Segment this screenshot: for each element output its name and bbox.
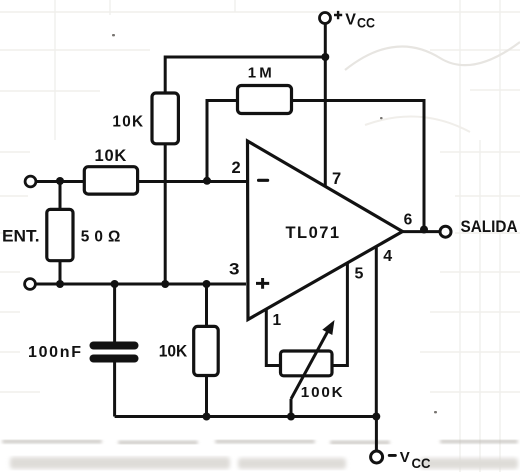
minus input symbol [257, 179, 269, 182]
resistor R2 1M (feedback) [238, 64, 292, 113]
svg-text:1: 1 [273, 312, 282, 329]
wire 1M right terminal to output node [293, 101, 424, 230]
terminal input lower ENT [25, 279, 36, 290]
wire 1M left terminal to pin2 net [207, 101, 236, 182]
wire pin 4 down [375, 247, 378, 417]
plus input symbol [256, 278, 269, 289]
wire R1 bottom to pin3 net [164, 144, 167, 284]
svg-text:V: V [400, 449, 410, 466]
svg-text:50Ω: 50Ω [81, 229, 121, 246]
wire output pin 6 [402, 230, 441, 233]
terminal output SALIDA [440, 217, 518, 237]
resistor R4 10K (lower vertical) [159, 326, 219, 375]
junction R1 bottom on pin3 net [161, 280, 169, 288]
junction 1M left on pin2 net [203, 177, 211, 185]
wire -Vcc drop [375, 417, 378, 452]
svg-text:1M: 1M [248, 64, 272, 81]
wire bottom rail [115, 415, 377, 418]
wire 50ohm bottom [59, 261, 62, 285]
wire pin2 input net [36, 180, 246, 183]
potentiometer P1 100K (offset null) [281, 320, 343, 401]
svg-text:SALIDA: SALIDA [461, 217, 518, 236]
wire R4 top [205, 284, 208, 327]
wire pin3 input net [36, 283, 247, 286]
svg-text:2: 2 [232, 159, 241, 177]
resistor R5 50 ohm (input termination) [47, 209, 121, 260]
svg-text:5: 5 [355, 265, 364, 282]
svg-text:10K: 10K [159, 343, 188, 361]
svg-text:100K: 100K [301, 384, 343, 401]
svg-text:100nF: 100nF [28, 344, 81, 361]
terminal input upper ENT [25, 176, 36, 187]
terminal +Vcc [320, 11, 376, 31]
resistor R3 10K (series input) [84, 147, 137, 194]
wire top rail from +Vcc node to R1 [165, 57, 325, 93]
junction pin4/-Vcc on rail [372, 413, 380, 421]
wire R4 bottom [205, 376, 208, 417]
junction 50ohm bottom on pin3 net [56, 280, 64, 288]
svg-text:CC: CC [412, 455, 431, 471]
svg-text:7: 7 [332, 170, 341, 188]
svg-text:6: 6 [404, 212, 413, 229]
junction cap top on pin3 net [111, 280, 119, 288]
junction wiper on rail [287, 413, 295, 421]
wire +Vcc vertical to pin 7 [324, 24, 327, 189]
svg-text:10K: 10K [95, 147, 127, 165]
capacitor C1 100nF [28, 342, 139, 363]
junction R4 bottom on rail [203, 413, 211, 421]
junction +Vcc/pin7/rail [321, 53, 329, 61]
svg-text:V: V [345, 12, 356, 29]
svg-text:ENT.: ENT. [2, 227, 40, 246]
svg-text:3: 3 [229, 260, 240, 279]
wire pin 5 to pot right [332, 263, 348, 366]
wire pin 1 to pot left [266, 309, 281, 366]
wire cap bottom [113, 363, 116, 417]
wire cap top [113, 284, 116, 342]
svg-text:10K: 10K [112, 114, 143, 131]
svg-text:4: 4 [383, 248, 392, 265]
junction 50ohm top on pin2 net [56, 177, 64, 185]
junction feedback on output [420, 226, 428, 234]
junction R4 top on pin3 net [203, 280, 211, 288]
op-amp U1 TL071 [248, 141, 403, 320]
terminal -Vcc [371, 449, 431, 471]
wire pot wiper stub [290, 399, 293, 417]
svg-text:CC: CC [357, 15, 375, 31]
wire 50ohm top [59, 182, 62, 211]
resistor R1 10K (upper vertical) [112, 93, 178, 144]
svg-text:TL071: TL071 [286, 224, 340, 242]
